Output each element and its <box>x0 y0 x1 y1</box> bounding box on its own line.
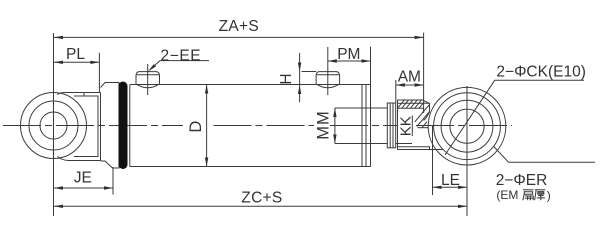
dimension PM right extension line <box>370 47 372 85</box>
dimension D line <box>206 85 208 167</box>
dimension PL right extension line <box>98 53 100 92</box>
right eye vertical centerline <box>466 86 468 216</box>
svg-text:ZA+S: ZA+S <box>219 18 259 35</box>
socket bottom section edge <box>418 127 429 129</box>
thread minor line bottom <box>398 147 430 150</box>
PL arrows <box>54 61 63 64</box>
section hatch in boss top band <box>396 98 432 110</box>
D arrows <box>205 85 208 94</box>
label 2-EE leader <box>150 61 209 70</box>
left clevis block bottom edge <box>58 157 101 161</box>
port 1 centerline <box>147 64 149 95</box>
right eye bearing circle <box>441 100 493 152</box>
dimension LE line <box>433 186 468 188</box>
right eye bore circle <box>450 109 484 143</box>
right eye ring circle <box>434 93 501 160</box>
svg-text:AM: AM <box>398 68 421 85</box>
dimension LE left extension line <box>432 125 434 195</box>
left eye vertical centerline <box>53 33 55 216</box>
hatch boundary line above rod <box>398 107 424 109</box>
svg-text:PM: PM <box>337 46 360 63</box>
label 2-PhiCK leader <box>445 80 584 155</box>
dimension PL line <box>54 61 99 63</box>
svg-text:(EM: (EM <box>496 188 518 202</box>
port plug 2 (right 2-EE port) <box>316 72 340 88</box>
svg-text:JE: JE <box>74 169 92 186</box>
dimension JE right extension line <box>112 167 114 195</box>
barrel bottom edge <box>130 166 371 168</box>
left eye middle circle <box>29 101 78 150</box>
right eye outer circle <box>428 87 506 165</box>
svg-text:): ) <box>547 189 551 203</box>
section hatch wedge <box>413 105 440 133</box>
left eye bore circle <box>40 112 67 139</box>
barrel head inner line 2 <box>365 85 367 167</box>
left clevis small weld line <box>83 93 85 97</box>
main horizontal centerline <box>3 125 512 127</box>
boss step outline to eye <box>424 101 430 121</box>
barrel right end face <box>370 85 372 167</box>
JE arrows <box>54 186 63 189</box>
dimension AM line <box>396 84 424 86</box>
hanzi hou (thick) drawn strokes <box>535 190 546 200</box>
svg-text:2−ΦCK(E10): 2−ΦCK(E10) <box>496 63 585 80</box>
dimension JE line <box>54 187 113 189</box>
svg-text:KK: KK <box>398 116 415 136</box>
dimension ZA+S right extension line <box>423 33 425 100</box>
rod bottom line inside socket <box>396 143 412 145</box>
barrel head inner line 1 <box>361 85 363 167</box>
svg-text:LE: LE <box>441 172 460 189</box>
left clevis inner rectangle <box>74 96 98 157</box>
svg-text:2−EE: 2−EE <box>161 48 202 65</box>
MM arrows <box>333 108 336 117</box>
PM arrows <box>328 59 337 62</box>
svg-text:D: D <box>187 121 205 133</box>
svg-text:2−ΦER: 2−ΦER <box>496 172 548 189</box>
svg-text:PL: PL <box>66 46 85 63</box>
dimension PM line <box>328 60 371 62</box>
port plug 1 (left 2-EE port) <box>136 72 160 88</box>
svg-text:H: H <box>278 73 295 84</box>
piston rod top line <box>335 107 387 109</box>
dimension ZC+S line <box>54 205 467 207</box>
svg-text:ZC+S: ZC+S <box>241 189 282 206</box>
ZC+S arrows <box>54 205 63 208</box>
rear cap outline <box>101 83 120 169</box>
dimension H extension line to port <box>302 71 317 73</box>
arrowheads <box>54 36 467 208</box>
left clevis block right edge <box>100 93 102 161</box>
dimension ZA+S line <box>54 36 424 38</box>
piston rod bottom line <box>335 143 387 145</box>
dimension AM left extension line <box>395 80 397 103</box>
port 2 centerline <box>327 47 329 95</box>
rod eye boss block <box>398 100 444 150</box>
left clevis block top edge <box>57 93 101 95</box>
thread minor line top <box>398 102 430 104</box>
dimension H line <box>299 53 301 102</box>
label 2-PhiER leader <box>494 147 595 163</box>
svg-text:MM: MM <box>315 110 333 140</box>
barrel left end face <box>129 85 131 167</box>
hanzi bian (flat) drawn strokes <box>523 190 534 200</box>
KK thread label underline <box>411 116 413 137</box>
dimension MM line <box>334 108 336 144</box>
H arrows (outside) <box>298 63 301 72</box>
seal ring (black) <box>119 82 128 170</box>
2-EE leader arrowhead <box>148 64 156 71</box>
rod jam nut <box>387 103 395 148</box>
LE arrows <box>433 186 442 189</box>
left eye outer circle <box>21 93 87 159</box>
barrel top edge <box>130 84 371 86</box>
ZA+S arrows <box>54 36 63 39</box>
AM arrows <box>396 83 405 86</box>
